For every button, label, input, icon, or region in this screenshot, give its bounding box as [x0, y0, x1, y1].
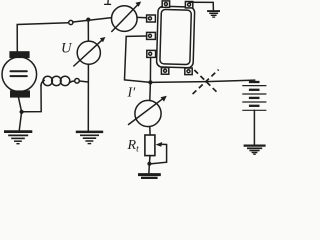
- wire from generator top brush up and right: [17, 23, 68, 52]
- generator M armature circle: [2, 57, 37, 92]
- ammeter I arrow: [112, 4, 139, 32]
- wire from connector to ammeter I: [73, 18, 112, 22]
- coil terminal small circle: [75, 79, 80, 84]
- rheostat slider return wire: [151, 144, 166, 164]
- generator equals sign: [11, 70, 27, 72]
- node junction bottom left: [20, 110, 24, 114]
- wire bus junction down to ammeter I': [149, 82, 152, 100]
- wire box top-right terminal to ground: [190, 2, 214, 10]
- regulator box inner case: [160, 9, 192, 64]
- ammeter I' circle: [135, 100, 161, 126]
- wire ammeter I to box terminal 1: [137, 16, 147, 18]
- voltmeter U circle: [77, 41, 100, 64]
- label I (clipped at top) above ammeter: [105, 0, 111, 4]
- battery cells: [242, 82, 266, 110]
- voltmeter U arrow: [74, 39, 103, 66]
- wire I' bottom to rheostat: [149, 127, 151, 135]
- bus wire to battery: [125, 80, 255, 83]
- svg-text:I′: I′: [127, 86, 137, 101]
- wire generator bottom down: [19, 98, 22, 131]
- ammeter I circle: [112, 6, 138, 32]
- rheostat Rt body: [145, 135, 155, 156]
- wire coil terminal to U bottom wire: [79, 81, 88, 82]
- wire box terminal L2 left and down to bus: [125, 36, 147, 80]
- field coil inductor: [43, 76, 52, 85]
- box terminal left 2: [147, 32, 156, 39]
- wire from junction to field coil left end: [22, 85, 42, 112]
- box terminal left 3: [147, 50, 156, 57]
- node bus junction: [148, 80, 152, 84]
- box terminal top-right: [185, 2, 192, 8]
- box terminal bottom-right: [185, 68, 192, 75]
- wire battery to ground: [253, 110, 255, 144]
- ground under generator: [4, 132, 32, 144]
- generator bottom brush: [10, 90, 30, 97]
- box terminal left 1: [147, 15, 156, 22]
- node junction on top wire: [86, 18, 90, 22]
- ground top right: [207, 11, 220, 17]
- box terminal top-left: [162, 1, 169, 7]
- rheostat slider arrow: [156, 142, 163, 147]
- wire rheostat bottom to ground: [149, 156, 150, 173]
- ground under rheostat: [138, 175, 161, 178]
- wire U bottom down to ground: [87, 64, 89, 130]
- regulator box outer case: [156, 6, 194, 68]
- ground under battery: [244, 146, 266, 155]
- ground under voltmeter line: [76, 132, 103, 144]
- wire box terminal L3 down to bus junction: [149, 57, 151, 82]
- svg-text:U: U: [61, 41, 73, 57]
- ammeter I' arrow: [129, 98, 165, 125]
- wire junction down to voltmeter U: [87, 20, 89, 42]
- connector small circle on top wire: [69, 20, 73, 24]
- box terminal bottom-left: [161, 68, 168, 75]
- node rheostat bottom junction: [147, 162, 151, 166]
- breaker X mark on bus: [193, 70, 219, 94]
- generator top brush: [9, 51, 29, 58]
